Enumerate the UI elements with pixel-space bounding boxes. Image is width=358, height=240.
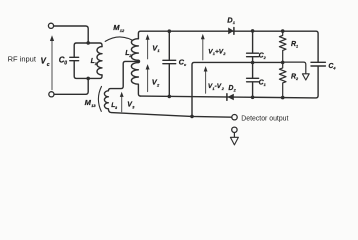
svg-text:1: 1 (157, 48, 160, 53)
svg-text:2: 2 (233, 88, 237, 92)
svg-text:13: 13 (91, 103, 96, 108)
svg-text:2: 2 (295, 77, 299, 81)
svg-text:1: 1 (296, 45, 298, 49)
svg-text:3: 3 (132, 105, 135, 109)
svg-text:c: c (184, 62, 187, 67)
svg-text:0: 0 (64, 61, 67, 67)
svg-text:12: 12 (120, 28, 125, 33)
svg-text:c: c (47, 62, 50, 68)
svg-text:4: 4 (332, 66, 336, 70)
svg-text:Detector output: Detector output (241, 116, 288, 123)
svg-text:-V: -V (215, 83, 222, 90)
svg-text:1: 1 (264, 83, 266, 87)
svg-text:2: 2 (263, 56, 267, 60)
svg-text:3: 3 (115, 106, 118, 110)
svg-text:2: 2 (221, 87, 225, 91)
svg-text:2: 2 (156, 82, 160, 87)
svg-text:2: 2 (222, 52, 226, 56)
svg-text:1: 1 (233, 20, 236, 25)
svg-text:RF input: RF input (8, 54, 37, 63)
svg-text:V: V (41, 57, 47, 66)
